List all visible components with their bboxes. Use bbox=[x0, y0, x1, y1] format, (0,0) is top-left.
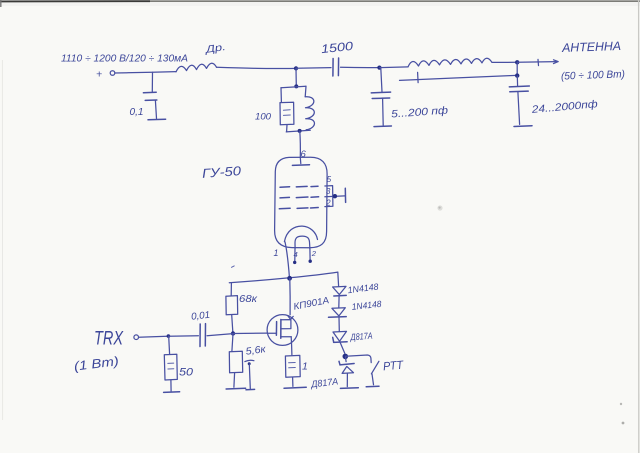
svg-text:РТТ: РТТ bbox=[382, 358, 404, 374]
zener D4 Д817А bbox=[310, 357, 354, 391]
wire: TRX to 50 junction bbox=[139, 335, 167, 338]
resistor 50 bbox=[164, 336, 194, 391]
svg-text:+: + bbox=[96, 69, 102, 81]
wire: gate junction to MOSFET gate bbox=[233, 332, 267, 334]
svg-text:4: 4 bbox=[294, 250, 298, 259]
wire: junction to 0,01 bbox=[169, 335, 199, 337]
wire: variometer slider bbox=[400, 72, 517, 82]
svg-text:1: 1 bbox=[302, 361, 308, 373]
svg-text:2: 2 bbox=[311, 249, 317, 258]
switch РТТ bbox=[346, 355, 405, 385]
stray tick bbox=[232, 266, 235, 267]
ground (under load cap) bbox=[514, 125, 532, 128]
svg-text:5: 5 bbox=[327, 175, 332, 184]
svg-text:100: 100 bbox=[255, 112, 272, 123]
wire bbox=[338, 317, 340, 331]
node: suppressor top bbox=[294, 84, 298, 88]
node: cathode-drain junction bbox=[287, 276, 292, 281]
tube grid dashes bbox=[279, 186, 318, 209]
svg-text:0,01: 0,01 bbox=[191, 310, 211, 323]
svg-text:1: 1 bbox=[274, 248, 279, 258]
transistor КП901А (MOSFET) bbox=[267, 295, 330, 355]
wire: antenna lead with arrow bbox=[517, 59, 558, 65]
node A (plate node) bbox=[294, 66, 298, 70]
label: supply voltage 1110÷1200 В / 120÷130 мА bbox=[61, 54, 188, 65]
node: gate junction bbox=[231, 331, 235, 335]
ground (under tune cap) bbox=[374, 125, 391, 128]
svg-text:68к: 68к bbox=[239, 293, 258, 305]
wire: node A down to suppressor bbox=[295, 69, 297, 87]
ground (grid bracket T-bar) bbox=[344, 188, 346, 202]
wire: cathode lead to bus bbox=[285, 242, 290, 279]
node: suppressor bottom bbox=[286, 129, 310, 133]
inductor: suppressor coil bbox=[305, 86, 314, 130]
tube ГУ-50 envelope bbox=[202, 157, 328, 247]
node: TRX input terminal bbox=[134, 335, 139, 340]
wire: blocking cap to node B bbox=[341, 66, 380, 68]
wire: bus to diode chain bbox=[337, 272, 340, 286]
svg-text:АНТЕННА: АНТЕННА bbox=[561, 39, 621, 55]
svg-text:0,1: 0,1 bbox=[130, 106, 144, 118]
wire: node A to blocking cap bbox=[296, 67, 331, 70]
inductor Др. (anode choke) bbox=[176, 42, 227, 72]
svg-text:1110 ÷ 1200 В/120 ÷ 130мА: 1110 ÷ 1200 В/120 ÷ 130мА bbox=[61, 54, 188, 65]
wire: stray stub with second ground bbox=[245, 360, 254, 388]
node C (load node) bbox=[515, 60, 519, 78]
ground (under D4) bbox=[340, 387, 358, 390]
svg-text:Д817А: Д817А bbox=[349, 331, 372, 343]
svg-text:(50 ÷ 100 Вт): (50 ÷ 100 Вт) bbox=[561, 68, 625, 82]
capacitor 0,01 bbox=[191, 310, 211, 347]
node: +HV input terminal bbox=[96, 69, 115, 81]
wire bbox=[338, 296, 340, 308]
wire: 0,01 to gate junction bbox=[207, 334, 233, 336]
capacitor 24...2000пф (load) bbox=[509, 76, 598, 124]
resistor 1 (source) bbox=[285, 355, 307, 386]
diode D2 1N4148 bbox=[329, 299, 382, 318]
tube heater bbox=[274, 236, 317, 264]
tube anode bar bbox=[292, 164, 309, 167]
capacitor 0,1 bbox=[130, 72, 157, 118]
svg-text:2: 2 bbox=[325, 199, 331, 208]
ground (under switch) bbox=[366, 385, 379, 388]
node B (tune node) bbox=[377, 66, 381, 70]
ground (under 50) bbox=[164, 391, 180, 394]
ground (stub) bbox=[246, 388, 255, 390]
svg-text:6: 6 bbox=[301, 149, 307, 160]
zener D3 Д817А bbox=[333, 331, 373, 343]
wire: coil to node C bbox=[492, 61, 517, 63]
node D (keying junction) bbox=[343, 354, 349, 360]
pins 5/3/2 bracket to ground bbox=[325, 175, 345, 208]
wire: bus down to MOSFET drain bbox=[289, 279, 291, 315]
ground (under 0,1) bbox=[148, 118, 166, 121]
svg-text:3: 3 bbox=[326, 187, 331, 196]
wire: anode lead, pin 6 bbox=[300, 131, 307, 164]
wire: bottom bus (cathode / drain / keying bus) bbox=[229, 272, 337, 283]
resistor 100 (parasitic suppressor) bbox=[255, 88, 294, 132]
capacitor 5...200 пф (tune) bbox=[371, 68, 449, 125]
svg-text:50: 50 bbox=[179, 367, 194, 379]
ground (under 5,6к) bbox=[226, 387, 246, 390]
capacitor 1500 (blocking) bbox=[320, 39, 354, 76]
tube cathode arc bbox=[284, 226, 317, 242]
resistor 5,6к bbox=[229, 334, 267, 387]
resistor 68к bbox=[226, 283, 258, 333]
wire bbox=[340, 342, 345, 354]
ground (under 1) bbox=[284, 386, 306, 389]
inductor: tank coil L bbox=[408, 58, 492, 67]
wire: choke to plate node A bbox=[217, 67, 296, 68]
diode D1 1N4148 bbox=[333, 282, 379, 296]
svg-text:TRX: TRX bbox=[94, 328, 124, 350]
wire: HV terminal to choke bbox=[115, 72, 176, 73]
wire: node B to tank coil bbox=[380, 66, 408, 69]
svg-text:ГУ-50: ГУ-50 bbox=[202, 163, 243, 181]
